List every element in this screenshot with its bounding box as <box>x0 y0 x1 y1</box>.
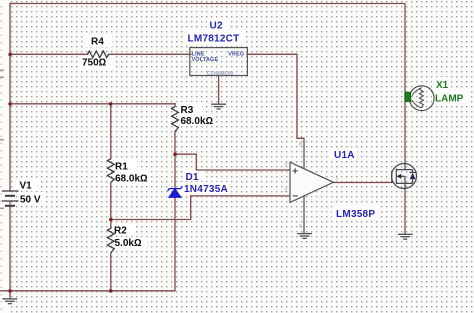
svg-text:VREG: VREG <box>228 52 244 58</box>
svg-text:R3: R3 <box>181 105 194 116</box>
svg-text:4: 4 <box>299 224 302 230</box>
svg-text:D1: D1 <box>186 172 199 183</box>
svg-text:3: 3 <box>285 162 288 168</box>
svg-text:R4: R4 <box>91 37 104 48</box>
svg-text:5.0kΩ: 5.0kΩ <box>115 238 142 249</box>
svg-text:R1: R1 <box>115 162 128 173</box>
svg-text:1: 1 <box>336 176 339 182</box>
svg-text:R2: R2 <box>114 226 127 237</box>
svg-text:1N4735A: 1N4735A <box>184 184 228 195</box>
svg-text:68.0kΩ: 68.0kΩ <box>115 174 148 185</box>
svg-text:750Ω: 750Ω <box>82 58 107 69</box>
svg-text:68.0kΩ: 68.0kΩ <box>181 116 214 127</box>
svg-text:VOLTAGE: VOLTAGE <box>192 57 219 63</box>
svg-text:LM358P: LM358P <box>336 209 375 220</box>
svg-text:LM7812CT: LM7812CT <box>188 34 240 45</box>
svg-text:50 V: 50 V <box>20 195 41 206</box>
svg-text:V1: V1 <box>20 181 33 192</box>
svg-text:U1A: U1A <box>334 150 355 161</box>
svg-text:U2: U2 <box>210 21 223 32</box>
svg-text:X1: X1 <box>436 80 449 91</box>
svg-text:2: 2 <box>285 188 288 194</box>
svg-text:LAMP: LAMP <box>435 93 464 104</box>
svg-text:COMMON: COMMON <box>207 71 233 77</box>
svg-text:8: 8 <box>299 142 302 148</box>
